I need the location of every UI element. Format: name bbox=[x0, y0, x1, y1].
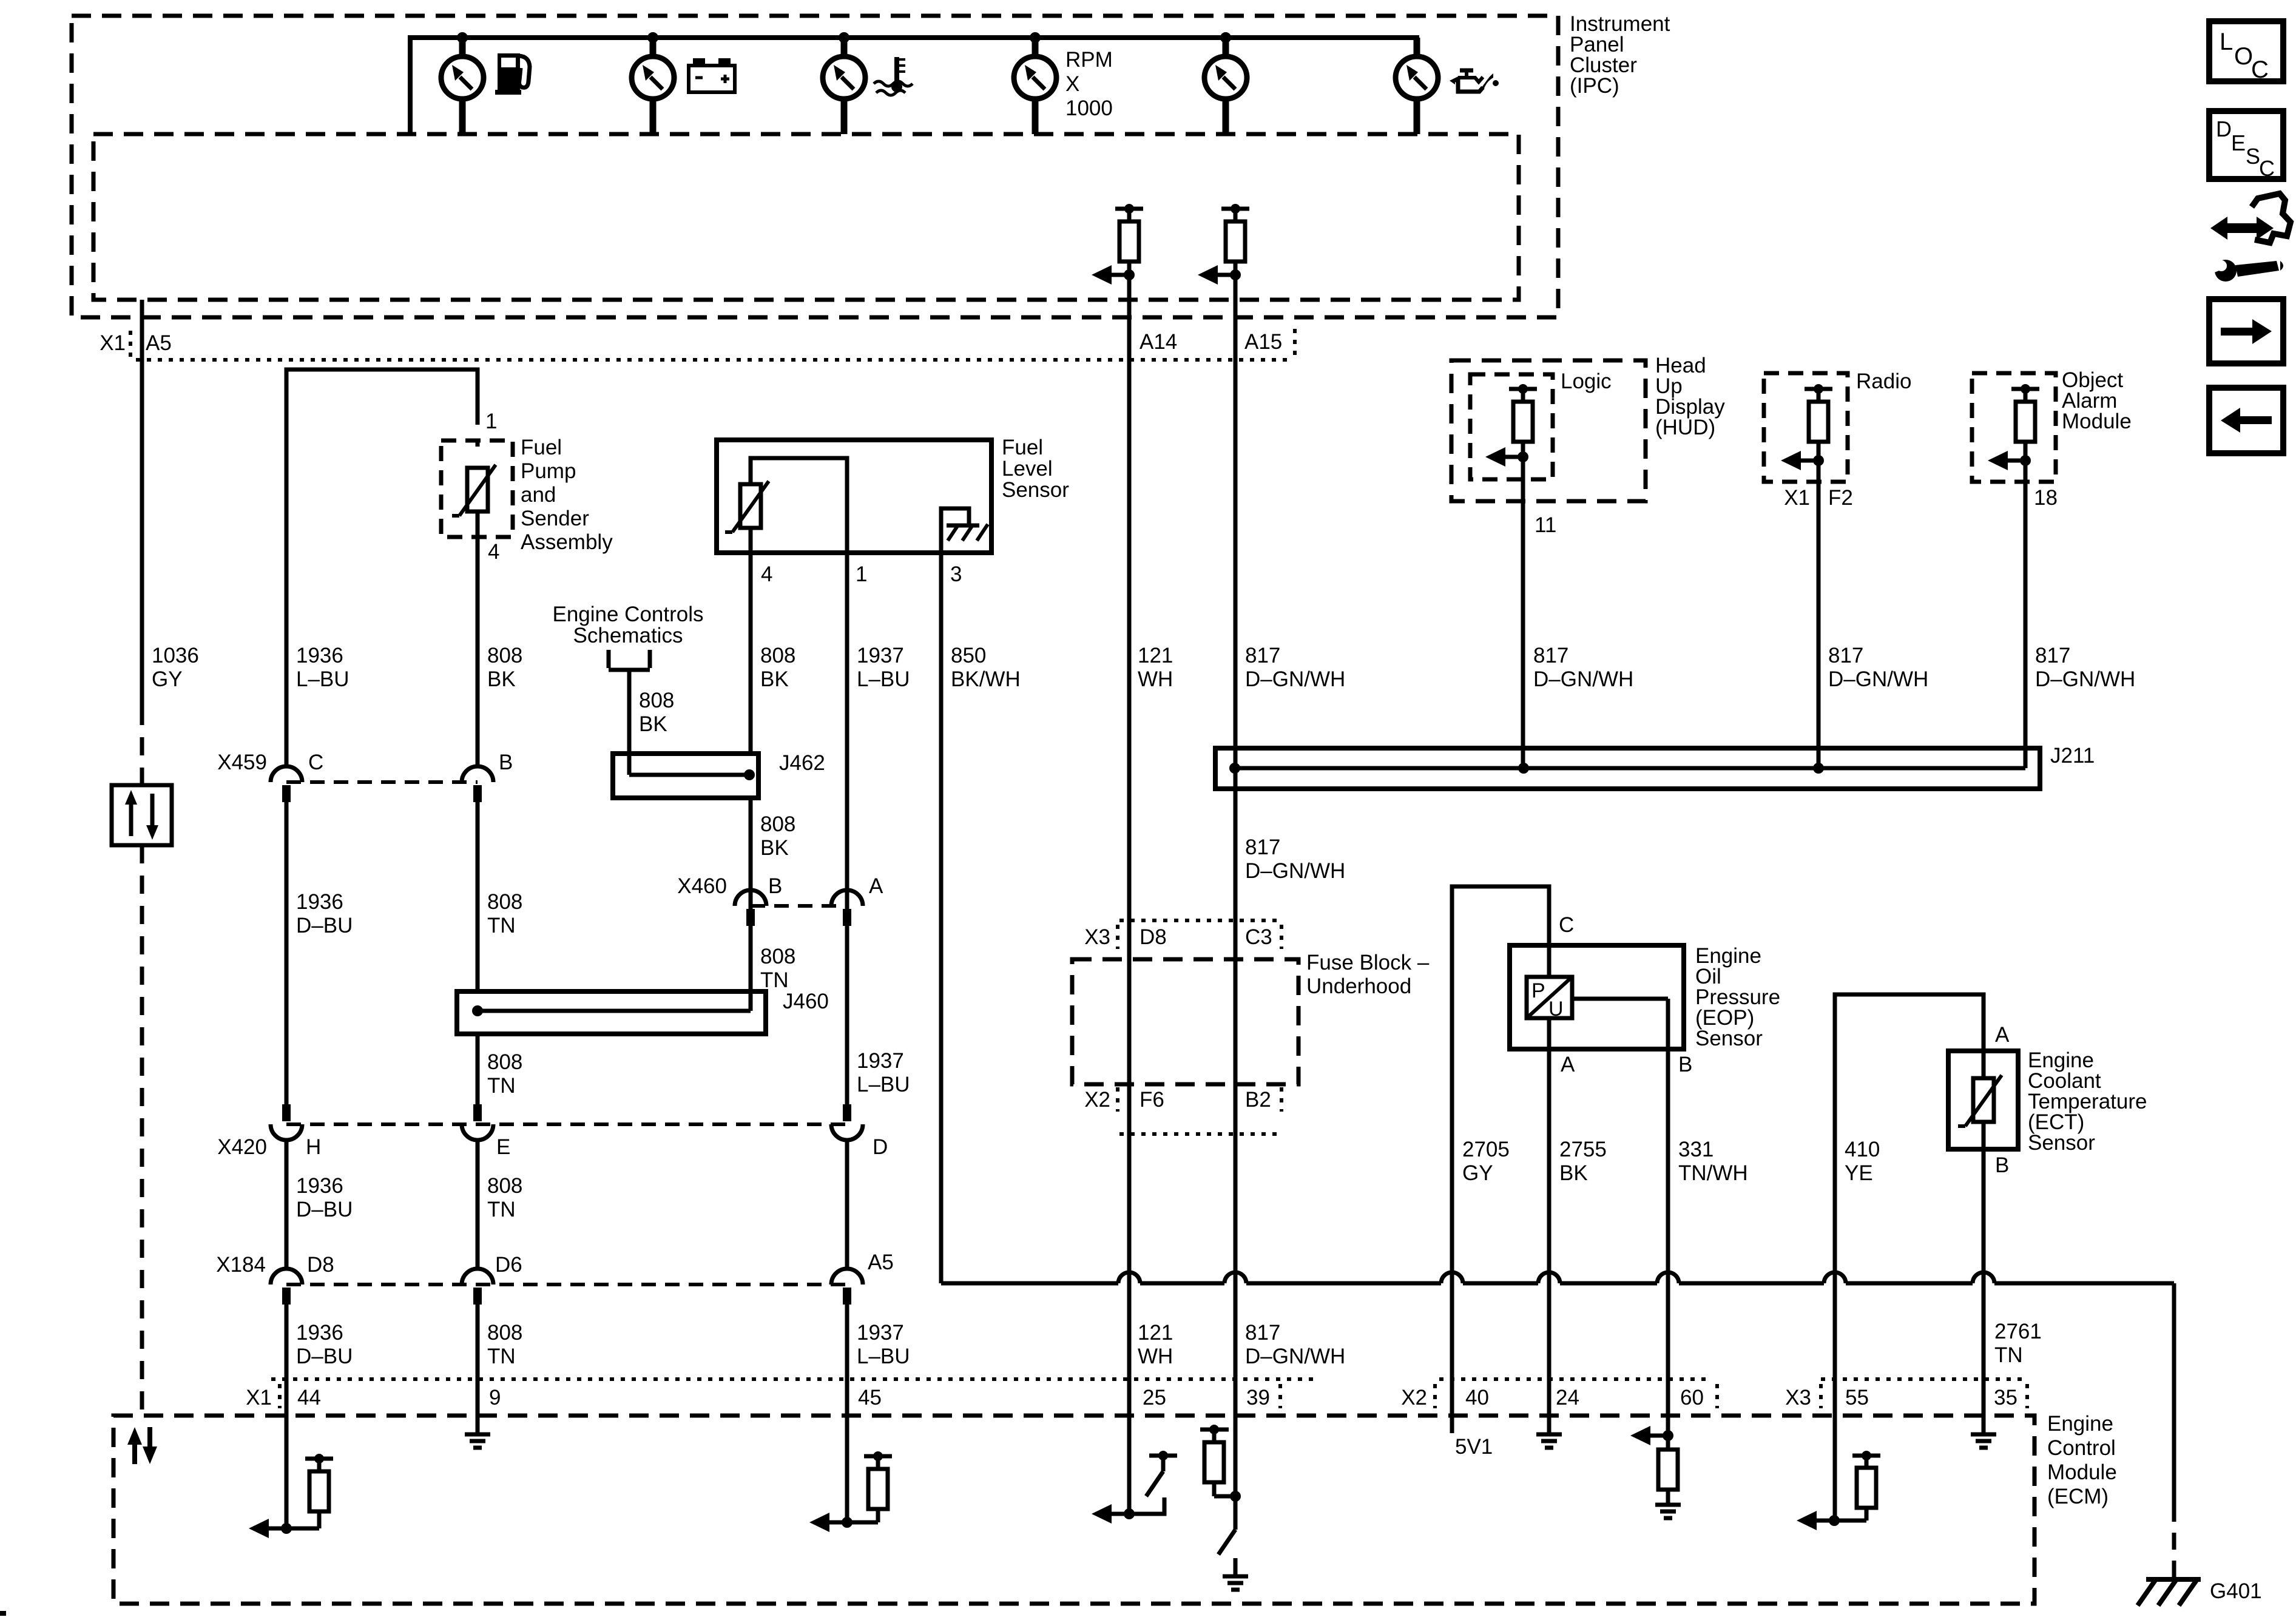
svg-text:Engine Controls: Engine Controls bbox=[552, 603, 703, 626]
svg-text:A15: A15 bbox=[1244, 330, 1282, 354]
ECM tick pin 35 bbox=[2025, 1384, 2029, 1408]
svg-text:D–GN/WH: D–GN/WH bbox=[1245, 1345, 1345, 1368]
back arrow nav box bbox=[2209, 388, 2283, 453]
svg-text:BK: BK bbox=[760, 667, 789, 691]
wire 850 hop-over at x=2553 bbox=[1538, 1272, 1560, 1283]
wire label 410 YE bbox=[1845, 1138, 1880, 1185]
fuse block label C3 bbox=[1245, 925, 1272, 949]
svg-text:24: 24 bbox=[1556, 1386, 1579, 1409]
wire 1936 D-BU (X184 to ECM pin 44) bbox=[285, 1305, 289, 1528]
junction node on gauge bus 5 bbox=[1220, 32, 1231, 43]
fuse block X3 dotted row bbox=[1119, 919, 1281, 922]
fuel level sender resistor bbox=[725, 481, 769, 553]
wire label 1936 D-BU bbox=[296, 890, 353, 937]
svg-text:808: 808 bbox=[487, 890, 522, 914]
ECM pin 60 label bbox=[1680, 1386, 1704, 1409]
svg-text:WH: WH bbox=[1138, 1345, 1173, 1368]
svg-text:Schematics: Schematics bbox=[573, 624, 683, 647]
svg-text:H: H bbox=[306, 1135, 321, 1159]
svg-text:121: 121 bbox=[1138, 1321, 1173, 1345]
HUD Logic inner dashed box bbox=[1470, 374, 1553, 479]
OAM internal resistor bbox=[2011, 384, 2039, 461]
ECM pin 60 arrow bbox=[1630, 1426, 1673, 1445]
svg-text:808: 808 bbox=[487, 1321, 522, 1345]
svg-text:1: 1 bbox=[856, 562, 867, 586]
ECT thermistor bbox=[1958, 1051, 2002, 1149]
ground G401 label bbox=[2210, 1579, 2262, 1603]
svg-text:TN: TN bbox=[760, 968, 789, 992]
fuel pump sender resistor bbox=[452, 441, 496, 537]
Engine Oil Pressure sensor label bbox=[1695, 944, 1780, 1050]
svg-text:L–BU: L–BU bbox=[296, 667, 349, 691]
svg-text:D–GN/WH: D–GN/WH bbox=[1533, 667, 1633, 691]
svg-text:C: C bbox=[2259, 156, 2275, 181]
ECM X2 dotted row bbox=[1439, 1377, 1712, 1381]
svg-text:BK: BK bbox=[760, 836, 789, 860]
ECM tick X2 bbox=[1433, 1384, 1437, 1408]
wire 817 D-GN/WH (OAM pin 18) bbox=[2024, 461, 2028, 768]
wire 850 hop-over at x=2036 bbox=[1224, 1272, 1246, 1283]
wire label 808 TN (3) bbox=[487, 1321, 522, 1368]
ECM pin 9 ground bbox=[465, 1434, 490, 1448]
svg-text:1937: 1937 bbox=[857, 644, 904, 667]
svg-text:Fuel: Fuel bbox=[521, 436, 562, 459]
wire 331 TN/WH bbox=[1666, 1049, 1670, 1436]
svg-text:25: 25 bbox=[1143, 1386, 1166, 1409]
svg-text:J462: J462 bbox=[779, 751, 825, 775]
Radio dashed box bbox=[1764, 373, 1848, 482]
wire 808 TN (X459 to J460) bbox=[476, 802, 480, 991]
svg-text:C: C bbox=[308, 751, 323, 774]
connector X459 pin C bbox=[271, 751, 323, 802]
svg-text:Sensor: Sensor bbox=[2028, 1131, 2095, 1155]
ECM tick X3 bbox=[1819, 1384, 1823, 1408]
ground G401 chassis symbol bbox=[2138, 1579, 2201, 1605]
Radio pin F2 label bbox=[1828, 486, 1853, 510]
svg-text:A: A bbox=[1995, 1023, 2010, 1047]
connector X459 dashed line bbox=[286, 780, 478, 784]
svg-text:U: U bbox=[1548, 998, 1564, 1021]
HUD internal arrow bbox=[1485, 447, 1528, 467]
svg-text:121: 121 bbox=[1138, 644, 1173, 667]
HUD Logic label bbox=[1561, 370, 1612, 393]
OAM internal arrow bbox=[1988, 451, 2031, 470]
Head Up Display label bbox=[1655, 354, 1725, 439]
svg-text:A: A bbox=[1561, 1053, 1575, 1076]
svg-text:D–GN/WH: D–GN/WH bbox=[1245, 859, 1345, 883]
fuse block label D8 bbox=[1140, 925, 1167, 949]
svg-text:TN: TN bbox=[487, 1345, 516, 1368]
Object Alarm Module dashed box bbox=[1972, 373, 2056, 482]
svg-text:1936: 1936 bbox=[296, 1174, 343, 1198]
battery voltage gauge (IPC) bbox=[632, 38, 674, 134]
wire 808 BK from fuel pump bbox=[476, 537, 480, 766]
svg-text:and: and bbox=[521, 483, 556, 507]
svg-text:(IPC): (IPC) bbox=[1570, 74, 1619, 98]
wire label 817 D-GN/WH (below J211) bbox=[1245, 836, 1345, 883]
wire 850 hop-over at x=1861 bbox=[1118, 1272, 1140, 1283]
OAM pin 18 label bbox=[2034, 486, 2058, 510]
tachometer gauge (IPC) bbox=[1014, 38, 1056, 134]
junction node on gauge bus 1 bbox=[457, 32, 468, 43]
svg-text:B2: B2 bbox=[1245, 1088, 1271, 1112]
svg-text:A14: A14 bbox=[1140, 330, 1177, 354]
svg-text:A5: A5 bbox=[146, 331, 172, 355]
svg-text:850: 850 bbox=[951, 644, 986, 667]
wire 1937 L-BU (X420-D to X184-A5) bbox=[845, 1140, 849, 1269]
wire 1036 GY dashed segment bbox=[140, 707, 144, 1416]
ECM pin 45 label bbox=[858, 1386, 882, 1409]
connector X460 dashed line bbox=[751, 904, 847, 908]
wire 808 BK stub from schematics bbox=[627, 670, 632, 775]
svg-text:X460: X460 bbox=[677, 874, 727, 898]
connector X420 pin E bbox=[462, 1104, 510, 1159]
svg-text:Assembly: Assembly bbox=[521, 530, 613, 554]
battery icon bbox=[689, 58, 735, 92]
DESC nav box bbox=[2209, 111, 2283, 181]
off-page connector symbol box (two arrows) bbox=[112, 785, 172, 845]
wire 817 D-GN/WH (Radio pin F2) bbox=[1817, 461, 1821, 768]
wire label 1937 L-BU (3) bbox=[857, 1321, 910, 1368]
wire label 121 WH (bottom) bbox=[1138, 1321, 1173, 1368]
EOP pin B label bbox=[1678, 1053, 1692, 1076]
svg-text:Engine: Engine bbox=[2047, 1412, 2113, 1436]
svg-text:Sender: Sender bbox=[521, 507, 589, 530]
svg-text:D–GN/WH: D–GN/WH bbox=[1828, 667, 1928, 691]
svg-text:1: 1 bbox=[485, 410, 497, 433]
fuel pump pin 1 label bbox=[485, 410, 497, 433]
EOP pin C label bbox=[1559, 913, 1574, 937]
wire 808 TN (X184-D6 to ECM pin 9) bbox=[476, 1305, 480, 1434]
fuel level pin 1 label bbox=[856, 562, 867, 586]
junction node on gauge bus 2 bbox=[647, 32, 658, 43]
svg-text:39: 39 bbox=[1246, 1386, 1270, 1409]
wire label 2705 GY bbox=[1462, 1138, 1510, 1185]
svg-text:Sensor: Sensor bbox=[1002, 478, 1069, 502]
svg-text:X3: X3 bbox=[1084, 925, 1110, 949]
svg-text:1000: 1000 bbox=[1065, 96, 1113, 120]
ECM pin 39 junction bbox=[1230, 1491, 1241, 1502]
svg-text:X420: X420 bbox=[217, 1135, 267, 1159]
svg-text:808: 808 bbox=[487, 1174, 522, 1198]
EOP internal wire A bbox=[1547, 945, 1551, 1049]
wire label 2755 BK bbox=[1559, 1138, 1607, 1185]
RPM x1000 label bbox=[1065, 48, 1113, 120]
ECM pin 25 switch bbox=[1129, 1451, 1177, 1514]
svg-text:44: 44 bbox=[297, 1386, 321, 1409]
Fuse Block Underhood label bbox=[1306, 951, 1430, 998]
ECM pin 39 pull-up resistor bbox=[1200, 1425, 1235, 1496]
svg-text:2755: 2755 bbox=[1559, 1138, 1607, 1161]
connector X184 label bbox=[216, 1253, 266, 1277]
ECM pin 44 label bbox=[297, 1386, 321, 1409]
ECM pin 45 pull-up resistor bbox=[847, 1451, 892, 1522]
IPC A15 internal resistor bbox=[1221, 204, 1249, 275]
wire 850 BK/WH dashed drop to G401 bbox=[2172, 1505, 2176, 1578]
splice J211 junction Radio bbox=[1813, 763, 1824, 774]
svg-text:Radio: Radio bbox=[1856, 370, 1911, 393]
splice J211 label bbox=[2050, 744, 2095, 768]
ECM label X3 bbox=[1785, 1386, 1811, 1409]
IPC inner dashed box bbox=[93, 134, 1519, 300]
fuse block label F6 bbox=[1140, 1088, 1164, 1112]
ECM pin 44 pull-up resistor bbox=[286, 1454, 333, 1528]
wire label 1937 L-BU (mid) bbox=[857, 1049, 910, 1096]
svg-text:D6: D6 bbox=[495, 1253, 522, 1277]
svg-text:D–BU: D–BU bbox=[296, 1198, 353, 1221]
IPC connector tick A15 bbox=[1293, 329, 1297, 357]
svg-text:60: 60 bbox=[1680, 1386, 1704, 1409]
svg-text:Control: Control bbox=[2047, 1436, 2116, 1460]
svg-text:Fuel: Fuel bbox=[1002, 436, 1043, 459]
svg-text:817: 817 bbox=[1828, 644, 1863, 667]
connector X184 pin A5 bbox=[831, 1251, 894, 1305]
svg-text:Fuse Block –: Fuse Block – bbox=[1306, 951, 1430, 974]
junction node on gauge bus 4 bbox=[1030, 32, 1041, 43]
fuse block tick B2 bbox=[1280, 1087, 1283, 1112]
wire 817 D-GN/WH (A15 down) bbox=[1234, 275, 1238, 1496]
fuse block tick C3 bbox=[1280, 925, 1283, 949]
EOP internal wire B bbox=[1572, 999, 1668, 1049]
svg-text:J460: J460 bbox=[783, 990, 829, 1013]
wire 850 hop-over at x=3269 bbox=[1973, 1272, 1994, 1283]
connector X420 label bbox=[217, 1135, 267, 1159]
wire 2755 BK bbox=[1547, 1049, 1551, 1434]
wire 808 BK (fuel level pin 4) bbox=[749, 553, 753, 916]
wire label 121 WH bbox=[1138, 644, 1173, 691]
svg-text:35: 35 bbox=[1994, 1386, 2017, 1409]
svg-text:YE: YE bbox=[1845, 1161, 1873, 1185]
wire label 808 TN bbox=[487, 890, 522, 937]
svg-text:TN/WH: TN/WH bbox=[1678, 1161, 1748, 1185]
svg-text:4: 4 bbox=[761, 562, 772, 586]
wire label 1937 L-BU bbox=[857, 644, 910, 691]
svg-text:WH: WH bbox=[1138, 667, 1173, 691]
svg-text:BK/WH: BK/WH bbox=[951, 667, 1021, 691]
wire 850 hop-over at x=2393 bbox=[1441, 1272, 1463, 1283]
wire 121 WH (A14 down) bbox=[1127, 275, 1132, 1514]
splice pack J211 bus bbox=[1235, 766, 2025, 771]
ECM pin 55 label bbox=[1845, 1386, 1869, 1409]
svg-text:Module: Module bbox=[2047, 1460, 2117, 1484]
svg-text:2705: 2705 bbox=[1462, 1138, 1510, 1161]
ECM pin 25 arrow bbox=[1092, 1504, 1135, 1524]
EOP sensor P/U symbol bbox=[1527, 977, 1572, 1021]
svg-text:TN: TN bbox=[487, 914, 516, 937]
svg-text:808: 808 bbox=[639, 689, 674, 712]
splice pack J462 box bbox=[613, 754, 758, 798]
svg-text:L–BU: L–BU bbox=[857, 1073, 910, 1096]
Engine Control Module label bbox=[2047, 1412, 2117, 1508]
svg-text:D8: D8 bbox=[1140, 925, 1167, 949]
svg-text:D8: D8 bbox=[307, 1253, 334, 1277]
wire label 808 BK (fuel pump) bbox=[487, 644, 522, 691]
fuel level sensor internal loop bbox=[751, 458, 847, 553]
wire label 808 TN (below X460) bbox=[760, 945, 795, 992]
HUD pin 11 label bbox=[1535, 513, 1556, 537]
svg-text:331: 331 bbox=[1678, 1138, 1714, 1161]
fuel level pin 4 label bbox=[761, 562, 772, 586]
ECT pin B label bbox=[1995, 1153, 2009, 1177]
svg-text:X2: X2 bbox=[1401, 1386, 1427, 1409]
fuse block X2 dotted row bbox=[1119, 1132, 1281, 1136]
wire label 808 BK (below J462) bbox=[760, 812, 795, 860]
connector X420 dashed line bbox=[286, 1122, 847, 1126]
svg-text:BK: BK bbox=[1559, 1161, 1588, 1185]
wire label 808 TN (2) bbox=[487, 1174, 522, 1221]
svg-text:18: 18 bbox=[2034, 486, 2058, 510]
connector X184 dashed line bbox=[286, 1283, 847, 1286]
svg-text:C3: C3 bbox=[1245, 925, 1272, 949]
wire 1937 L-BU (X460-A to X420-D) bbox=[845, 926, 849, 1104]
splice J211 junction HUD bbox=[1518, 763, 1529, 774]
ECM pin 39 switch to ground bbox=[1218, 1496, 1235, 1575]
svg-text:1937: 1937 bbox=[857, 1321, 904, 1345]
ECM X1 dotted row bbox=[271, 1377, 1314, 1381]
svg-text:X459: X459 bbox=[217, 751, 267, 774]
svg-text:L–BU: L–BU bbox=[857, 667, 910, 691]
Engine Oil Pressure sensor box bbox=[1510, 945, 1684, 1049]
svg-text:L: L bbox=[2220, 29, 2233, 55]
ECM pin 60 resistor to ground bbox=[1658, 1436, 1678, 1505]
svg-text:X1: X1 bbox=[100, 331, 126, 355]
svg-text:O: O bbox=[2234, 43, 2253, 70]
ECM label X2 bbox=[1401, 1386, 1427, 1409]
connector X459 label bbox=[217, 751, 267, 774]
IPC connector label A14 bbox=[1140, 330, 1177, 354]
svg-text:P: P bbox=[1531, 979, 1545, 1002]
fuel level sensor internal ground bbox=[941, 508, 988, 553]
ECM tick pin 39 bbox=[1278, 1384, 1282, 1408]
ECM pin 25 label bbox=[1143, 1386, 1166, 1409]
fuse block label X3 bbox=[1084, 925, 1110, 949]
IPC A14 internal arrow bbox=[1092, 265, 1135, 285]
svg-text:D–BU: D–BU bbox=[296, 1345, 353, 1368]
IPC X1 connector row dotted line bbox=[136, 358, 1293, 362]
wire 1936 D-BU (X420 to X184) bbox=[285, 1140, 289, 1269]
svg-text:11: 11 bbox=[1535, 513, 1556, 537]
wire 1936 D-BU (X459 to X420) bbox=[285, 802, 289, 1104]
engine oil icon bbox=[1450, 70, 1499, 92]
svg-text:5V1: 5V1 bbox=[1455, 1435, 1493, 1459]
wire label 817 D-GN/WH (HUD) bbox=[1533, 644, 1633, 691]
svg-text:D–GN/WH: D–GN/WH bbox=[2035, 667, 2135, 691]
Fuel Level Sensor label bbox=[1002, 436, 1069, 502]
fuse block label X2 bbox=[1084, 1088, 1110, 1112]
svg-text:TN: TN bbox=[487, 1074, 516, 1098]
svg-text:X1: X1 bbox=[1784, 486, 1810, 510]
wire 808 TN (J460 to X420-E) bbox=[476, 1034, 480, 1104]
fuel pump icon bbox=[495, 53, 530, 95]
svg-text:Logic: Logic bbox=[1561, 370, 1612, 393]
junction node on gauge bus 3 bbox=[839, 32, 849, 43]
connector X184 pin D6 bbox=[462, 1253, 522, 1305]
wire label 2761 TN bbox=[1994, 1320, 2042, 1367]
ECM pin 40 label bbox=[1465, 1386, 1489, 1409]
ECM pin 24 ground bbox=[1536, 1434, 1562, 1448]
svg-text:GY: GY bbox=[152, 667, 183, 691]
wire label 1936 D-BU (2) bbox=[296, 1174, 353, 1221]
connector X460 label bbox=[677, 874, 727, 898]
connector X420 pin D bbox=[831, 1104, 888, 1159]
ECM pin 40 5V1 label bbox=[1455, 1435, 1493, 1459]
svg-text:D: D bbox=[873, 1135, 888, 1159]
wire label 1036 GY bbox=[152, 644, 199, 691]
svg-text:(ECM): (ECM) bbox=[2047, 1485, 2109, 1508]
svg-text:817: 817 bbox=[1245, 836, 1280, 859]
ECM label X1 bbox=[246, 1386, 272, 1409]
wire label 817 D-GN/WH (A15) bbox=[1245, 644, 1345, 691]
svg-text:C: C bbox=[1559, 913, 1574, 937]
svg-text:B: B bbox=[768, 874, 782, 898]
svg-text:X2: X2 bbox=[1084, 1088, 1110, 1112]
ECM X3 dotted row bbox=[1821, 1377, 2027, 1381]
ECM pin 55 arrow bbox=[1797, 1511, 1840, 1530]
svg-text:J211: J211 bbox=[2050, 744, 2095, 768]
svg-text:A: A bbox=[869, 874, 883, 898]
ECM pin 45 arrow bbox=[809, 1513, 853, 1532]
svg-text:L–BU: L–BU bbox=[857, 1345, 910, 1368]
svg-text:Underhood: Underhood bbox=[1306, 974, 1411, 998]
connector X184 pin D8 bbox=[271, 1253, 334, 1305]
splice pack J211 box bbox=[1215, 748, 2040, 789]
HUD internal resistor bbox=[1509, 384, 1537, 457]
wire 850 BK/WH vertical from fuel level pin 3 bbox=[939, 553, 944, 1283]
svg-text:C: C bbox=[2251, 56, 2269, 83]
ECM pin 24 label bbox=[1556, 1386, 1579, 1409]
wire 850 BK/WH right vertical bbox=[2172, 1283, 2176, 1505]
ECM pin 39 label bbox=[1246, 1386, 1270, 1409]
connector X459 pin B bbox=[462, 751, 513, 802]
wire 808 TN (X420-E to X184-D6) bbox=[476, 1140, 480, 1269]
Engine Coolant Temperature sensor label bbox=[2028, 1048, 2147, 1155]
wire 2705 GY lower run bbox=[1450, 1283, 1454, 1433]
svg-text:F6: F6 bbox=[1140, 1088, 1164, 1112]
svg-text:817: 817 bbox=[2035, 644, 2070, 667]
svg-text:X3: X3 bbox=[1785, 1386, 1811, 1409]
svg-text:1936: 1936 bbox=[296, 644, 343, 667]
svg-text:B: B bbox=[1678, 1053, 1692, 1076]
svg-text:B: B bbox=[499, 751, 513, 774]
wire label 817 D-GN/WH (bottom) bbox=[1245, 1321, 1345, 1368]
svg-text:2761: 2761 bbox=[1994, 1320, 2042, 1343]
Radio label bbox=[1856, 370, 1911, 393]
svg-text:817: 817 bbox=[1533, 644, 1568, 667]
IPC connector label A15 bbox=[1244, 330, 1282, 354]
svg-text:808: 808 bbox=[760, 812, 795, 836]
svg-text:1936: 1936 bbox=[296, 890, 343, 914]
Engine Controls Schematics bracket bbox=[609, 650, 650, 670]
ECM internal off-page arrows (to other sheet) bbox=[127, 1427, 157, 1464]
ECM pin 44 arrow bbox=[249, 1519, 292, 1538]
IPC label bbox=[1570, 12, 1670, 98]
wire label 817 D-GN/WH (Radio) bbox=[1828, 644, 1928, 691]
splice J211 junction A15 bbox=[1229, 763, 1240, 774]
svg-text:E: E bbox=[496, 1135, 510, 1159]
Engine Coolant Temperature sensor box bbox=[1948, 1051, 2018, 1149]
wire label 808 BK (pin4) bbox=[760, 644, 795, 691]
svg-text:Module: Module bbox=[2062, 410, 2132, 433]
ECM pin 60 ground bbox=[1655, 1505, 1681, 1518]
splice pack J460 bus bbox=[472, 1005, 751, 1016]
svg-text:F2: F2 bbox=[1828, 486, 1853, 510]
wire 850 BK/WH horizontal run bbox=[941, 1281, 2174, 1286]
Fuel Pump and Sender Assembly dashed box bbox=[441, 441, 513, 537]
svg-text:808: 808 bbox=[487, 644, 522, 667]
svg-text:1937: 1937 bbox=[857, 1049, 904, 1073]
svg-text:45: 45 bbox=[858, 1386, 882, 1409]
svg-text:3: 3 bbox=[950, 562, 962, 586]
